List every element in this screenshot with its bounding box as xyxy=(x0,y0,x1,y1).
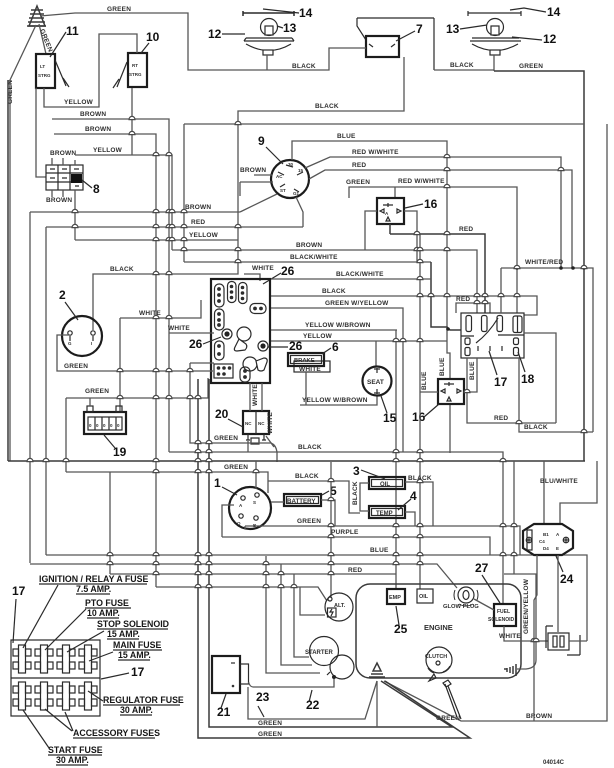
wire ground drop xyxy=(376,681,378,727)
wire black bracket oil/temp xyxy=(360,483,369,511)
svg-text:BLUE: BLUE xyxy=(370,547,389,554)
wire RED fuse jumper xyxy=(456,303,490,313)
svg-text:GREEN: GREEN xyxy=(107,6,131,13)
wire circle1 top pin xyxy=(255,461,257,489)
svg-text:AC: AC xyxy=(276,174,283,179)
svg-text:BROWN: BROWN xyxy=(240,167,266,174)
wire relay left pin xyxy=(365,211,377,250)
svg-text:BLUE: BLUE xyxy=(439,357,446,376)
svg-text:BLACK: BLACK xyxy=(450,62,474,69)
wire 23 xyxy=(248,681,377,719)
wire RT STRG second lead down xyxy=(131,88,133,155)
fuel solenoid 27 xyxy=(488,604,516,626)
svg-text:WHITE/RED: WHITE/RED xyxy=(525,259,563,266)
svg-text:10: 10 xyxy=(146,30,160,44)
wire relay right pin xyxy=(404,211,417,262)
fuse label PTO xyxy=(45,598,131,650)
wire GREEN from right headlight to right trunk xyxy=(494,71,584,461)
svg-text:BLACK/WHITE: BLACK/WHITE xyxy=(290,254,338,261)
wire 20 top pins to panel xyxy=(250,383,262,411)
svg-text:04014C: 04014C xyxy=(543,760,565,766)
fuse label REGULATOR FUSE xyxy=(88,691,184,715)
inline connector bottom right xyxy=(546,626,580,655)
headlight right (12/13/14) xyxy=(468,11,521,71)
wire bus y124 xyxy=(184,124,584,262)
svg-text:BLUE: BLUE xyxy=(337,133,356,140)
connector pill A xyxy=(215,284,225,307)
wire brake to yellow w/brown xyxy=(305,372,307,405)
svg-text:23: 23 xyxy=(256,690,270,704)
wire battery right down to GREEN y526 xyxy=(321,500,335,526)
wire WHITE y332 xyxy=(169,332,214,334)
wire RED y423 from regulator fuse xyxy=(467,358,556,423)
fuse block 17/18 top right xyxy=(461,313,524,358)
svg-text:26: 26 xyxy=(281,264,295,278)
dipstick wand bottom right xyxy=(443,680,461,719)
fuse r2c1 xyxy=(13,682,31,710)
svg-text:BLACK: BLACK xyxy=(110,266,134,273)
svg-text:YELLOW: YELLOW xyxy=(189,232,219,239)
svg-text:WHITE: WHITE xyxy=(252,384,259,406)
wire right edge vertical to bottom brown xyxy=(384,124,607,721)
headlight left (12/13/14) xyxy=(243,11,294,70)
svg-text:21: 21 xyxy=(217,705,231,719)
wire hops xyxy=(27,116,587,641)
svg-text:15: 15 xyxy=(298,168,304,173)
oil sender 3 xyxy=(369,477,405,489)
wire YELLOW W/BROWN y405 xyxy=(300,395,377,405)
svg-text:BLACK: BLACK xyxy=(295,473,319,480)
connector pill E xyxy=(215,309,225,330)
wire x514 vertical xyxy=(513,461,515,574)
starter feed wires xyxy=(266,556,320,673)
block inner dividers xyxy=(461,335,524,336)
alternator xyxy=(325,593,353,621)
svg-text:IGNITION / RELAY A FUSE: IGNITION / RELAY A FUSE xyxy=(39,574,148,584)
svg-text:9: 9 xyxy=(258,134,265,148)
wire BLUE relay16b left xyxy=(420,234,438,589)
svg-text:14: 14 xyxy=(299,6,313,20)
svg-text:13: 13 xyxy=(283,21,297,35)
svg-text:RED: RED xyxy=(456,296,470,303)
fuse label MAIN FUSE xyxy=(89,640,162,661)
svg-text:BROWN: BROWN xyxy=(526,713,552,720)
wire circle1 bottom pin xyxy=(244,526,246,529)
switch RT STRG (10) xyxy=(113,53,147,88)
svg-text:WHITE: WHITE xyxy=(499,633,521,640)
svg-text:BLU/WHITE: BLU/WHITE xyxy=(540,478,578,485)
svg-text:10 AMP.: 10 AMP. xyxy=(87,608,120,618)
svg-text:OIL: OIL xyxy=(419,594,429,600)
svg-text:GREEN: GREEN xyxy=(519,63,543,70)
svg-text:B1: B1 xyxy=(543,532,549,537)
node junction dots on white/red xyxy=(515,266,519,270)
svg-text:BLACK: BLACK xyxy=(292,63,316,70)
svg-text:GREEN: GREEN xyxy=(85,388,109,395)
ground (top-left chassis ground) xyxy=(27,6,46,26)
svg-text:RED W/WHITE: RED W/WHITE xyxy=(352,149,399,156)
wire main bus y461 xyxy=(8,80,585,461)
meter circle 2 xyxy=(62,316,102,356)
connector pill C xyxy=(239,283,248,304)
svg-text:19: 19 xyxy=(113,445,127,459)
wire GREEN left vertical from ground down left edge xyxy=(10,25,36,461)
wire GREEN y396 xyxy=(66,378,208,472)
svg-text:BROWN: BROWN xyxy=(185,204,211,211)
svg-text:LT: LT xyxy=(40,64,45,69)
svg-text:16: 16 xyxy=(412,410,426,424)
wire 20 bottom pins down xyxy=(248,436,274,452)
relay 21 xyxy=(212,656,249,693)
wire 24 bottom pins down xyxy=(534,555,558,721)
brake switch 6 xyxy=(288,353,330,372)
wire BROWN bus y212 xyxy=(30,212,240,563)
block inner marks xyxy=(476,318,502,351)
svg-text:BLACK: BLACK xyxy=(298,444,322,451)
key switch circle 1 xyxy=(229,487,271,529)
keyhole shape 2 xyxy=(243,357,267,371)
svg-text:30 AMP.: 30 AMP. xyxy=(120,705,153,715)
fuse r1c2 xyxy=(35,645,53,673)
fuse label ACCESSORY FUSES xyxy=(45,709,160,738)
svg-text:GREEN: GREEN xyxy=(224,464,248,471)
fuse r2c4 xyxy=(79,682,97,710)
svg-text:S: S xyxy=(253,500,256,505)
svg-text:C4: C4 xyxy=(539,539,545,544)
ground engine left xyxy=(369,663,385,677)
fuse label IGNITION xyxy=(23,574,148,648)
wire BLU/WHITE into 24 xyxy=(543,461,545,524)
starter motor xyxy=(305,637,354,680)
svg-text:7.5 AMP.: 7.5 AMP. xyxy=(76,584,111,594)
wire RED bus y227 xyxy=(46,227,303,555)
wire PURPLE y537 xyxy=(222,537,490,555)
ignition switch 9 xyxy=(271,160,309,198)
wire trunk x198 down to green xyxy=(198,379,470,738)
svg-text:WHITE: WHITE xyxy=(267,412,274,434)
engine block outline xyxy=(356,584,521,678)
svg-text:STOP SOLENOID: STOP SOLENOID xyxy=(97,619,169,629)
svg-text:ACCESSORY FUSES: ACCESSORY FUSES xyxy=(73,728,160,738)
svg-text:BLUE: BLUE xyxy=(421,371,428,390)
wire BROWN y119 xyxy=(52,119,169,452)
connector block bottom-left of panel xyxy=(214,364,233,378)
svg-text:1: 1 xyxy=(214,476,221,490)
svg-text:14: 14 xyxy=(547,5,561,19)
wire BLACK from 7 down and left xyxy=(93,57,404,330)
svg-text:ENGINE: ENGINE xyxy=(424,623,453,632)
hour meter 19 xyxy=(84,406,126,434)
svg-text:RED W/WHITE: RED W/WHITE xyxy=(398,178,445,185)
battery 5 xyxy=(284,494,321,506)
clutch xyxy=(425,647,452,681)
wire GREEN circle2 to panel connector xyxy=(57,335,213,371)
wire RED y234 xyxy=(390,234,485,313)
wire relay16b bottom pin xyxy=(449,405,451,453)
svg-text:GLOW PLUG: GLOW PLUG xyxy=(443,604,479,610)
wire oil right BLACK xyxy=(405,482,433,526)
svg-text:24: 24 xyxy=(560,572,574,586)
wire BLACK from headlight to 7 xyxy=(267,48,366,70)
bolt 26b xyxy=(258,341,268,351)
temp sender 4 xyxy=(369,506,405,518)
wire BLUE from ignition top xyxy=(292,141,450,378)
svg-text:SOLENOID: SOLENOID xyxy=(488,617,515,623)
svg-text:YELLOW: YELLOW xyxy=(303,333,333,340)
fuse label STOP SOLENOID xyxy=(67,619,169,652)
wire circle1 right pin to battery xyxy=(271,501,284,503)
regulator connector 24 xyxy=(523,524,573,555)
svg-text:7: 7 xyxy=(416,22,423,36)
svg-text:NC: NC xyxy=(245,421,252,426)
wire y563 xyxy=(30,564,457,588)
svg-text:15: 15 xyxy=(383,411,397,425)
svg-text:8: 8 xyxy=(93,182,100,196)
svg-text:17: 17 xyxy=(131,665,145,679)
svg-text:WHITE: WHITE xyxy=(252,265,274,272)
wire GREEN top from ground to headlight stem xyxy=(40,13,267,70)
svg-text:START FUSE: START FUSE xyxy=(48,745,103,755)
switch 20 xyxy=(243,411,269,440)
oil pressure switch box xyxy=(417,589,433,603)
svg-text:20: 20 xyxy=(215,407,229,421)
wire y587 xyxy=(156,587,327,615)
fuse r1c3 xyxy=(57,645,75,673)
svg-text:BRAKE: BRAKE xyxy=(294,358,315,364)
wire stubs into ignition left xyxy=(240,175,273,196)
wire BLACK from 7 funnel to right headlight xyxy=(434,69,494,71)
svg-text:D4: D4 xyxy=(543,546,549,551)
wire 21 to starter (22) xyxy=(249,679,335,687)
connector pill G bottom xyxy=(240,367,250,382)
wire BROWN y134 xyxy=(54,134,156,587)
wire BLACK/WHITE bus y262 xyxy=(184,261,431,263)
wire YELLOW from LT STRG bottom to RT STRG top xyxy=(44,34,137,107)
wire RED y575 xyxy=(110,472,396,574)
svg-text:BLUE: BLUE xyxy=(469,361,476,380)
wire bus y472 GREEN xyxy=(66,472,268,493)
svg-text:YELLOW W/BROWN: YELLOW W/BROWN xyxy=(302,397,368,404)
svg-text:YELLOW: YELLOW xyxy=(93,147,123,154)
ground engine right sideways xyxy=(504,664,516,676)
svg-text:2: 2 xyxy=(59,288,66,302)
svg-text:GREEN: GREEN xyxy=(258,720,282,727)
svg-text:MAIN FUSE: MAIN FUSE xyxy=(113,640,162,650)
wire BROWN diag from ignition to bus xyxy=(240,194,277,212)
svg-text:STARTER: STARTER xyxy=(305,650,334,656)
svg-text:BROWN: BROWN xyxy=(80,111,106,118)
svg-text:ST: ST xyxy=(280,188,286,193)
svg-text:RT: RT xyxy=(132,63,138,68)
svg-text:18: 18 xyxy=(521,372,535,386)
wire BLACK/WHITE y279 xyxy=(270,278,431,280)
lamp unit 7 xyxy=(357,18,434,70)
wire GREEN/YELLOW from black y453 down to engine ground xyxy=(504,574,536,669)
fuse label START FUSE xyxy=(23,710,103,765)
svg-text:17: 17 xyxy=(494,375,508,389)
relay 16 (A relay) xyxy=(377,198,404,224)
wire RED from ignition xyxy=(309,170,572,268)
svg-text:OIL: OIL xyxy=(380,482,390,488)
svg-text:BLACK: BLACK xyxy=(322,288,346,295)
svg-text:PURPLE: PURPLE xyxy=(331,529,359,536)
svg-text:12: 12 xyxy=(208,27,222,41)
svg-text:13: 13 xyxy=(446,22,460,36)
svg-text:GREEN/YELLOW: GREEN/YELLOW xyxy=(523,578,530,634)
wire circle1 left pin loop xyxy=(222,505,234,537)
svg-text:RED: RED xyxy=(352,162,366,169)
bolt 26a xyxy=(222,329,232,339)
svg-text:BROWN: BROWN xyxy=(46,197,72,204)
fuse c xyxy=(497,316,503,332)
svg-text:17: 17 xyxy=(12,584,26,598)
panel 26 box xyxy=(211,279,270,383)
svg-text:NC: NC xyxy=(258,421,265,426)
svg-text:SEAT: SEAT xyxy=(367,379,384,386)
wire diag ignition bottom xyxy=(296,197,303,227)
svg-text:GREEN: GREEN xyxy=(214,435,238,442)
svg-text:26: 26 xyxy=(289,339,303,353)
wire BLUE y555 xyxy=(46,555,587,641)
keyhole shape 1 xyxy=(234,327,251,351)
svg-text:RED: RED xyxy=(494,415,508,422)
svg-text:12: 12 xyxy=(543,32,557,46)
svg-text:G: G xyxy=(68,341,72,346)
wire stubs bottom of connector 8 xyxy=(52,190,75,240)
svg-text:4: 4 xyxy=(410,489,417,503)
connector pill D horizontal xyxy=(250,304,266,314)
wire glow to fuel sol diag xyxy=(474,599,494,610)
svg-text:6: 6 xyxy=(332,340,339,354)
fuse panel box 17 xyxy=(11,640,100,716)
wire YELLOW W/BROWN y330 xyxy=(270,330,397,588)
svg-text:11: 11 xyxy=(66,24,79,38)
wire stubs top of connector 8 xyxy=(52,158,75,165)
seat switch 15 xyxy=(363,367,392,396)
svg-text:I: I xyxy=(91,341,92,346)
svg-text:BROWN: BROWN xyxy=(296,242,322,249)
svg-text:EMP: EMP xyxy=(389,595,401,601)
wire WHITE from fuel solenoid xyxy=(504,626,548,641)
svg-text:WHITE: WHITE xyxy=(299,366,321,373)
svg-text:GREEN: GREEN xyxy=(297,518,321,525)
wire connector to right vertical xyxy=(569,640,587,642)
svg-text:3: 3 xyxy=(353,464,360,478)
temp gauge sender 25 box xyxy=(387,589,405,604)
wire WHITE/RED y267 xyxy=(501,268,593,432)
wire YELLOW bus y240 xyxy=(75,239,238,241)
wire YELLOW y155 xyxy=(75,155,172,250)
svg-text:22: 22 xyxy=(306,698,320,712)
svg-text:RED: RED xyxy=(348,567,362,574)
svg-text:E: E xyxy=(556,546,559,551)
wire BROWN bus y250 xyxy=(172,250,477,313)
svg-text:GREEN: GREEN xyxy=(258,731,282,738)
svg-text:25: 25 xyxy=(394,622,408,636)
switch LT STRG (11) xyxy=(36,54,69,88)
fuse r1c4 xyxy=(79,645,97,673)
wire relay bottom pin RED xyxy=(389,224,391,234)
svg-text:G1: G1 xyxy=(293,191,300,196)
svg-text:CLUTCH: CLUTCH xyxy=(425,654,447,660)
svg-text:YELLOW: YELLOW xyxy=(64,99,94,106)
wire BLACK battery top y480 xyxy=(268,481,360,513)
svg-text:WHITE: WHITE xyxy=(168,325,190,332)
svg-text:15 AMP.: 15 AMP. xyxy=(107,629,140,639)
svg-text:STRG: STRG xyxy=(38,73,51,78)
svg-text:27: 27 xyxy=(475,561,489,575)
relay 16b xyxy=(438,379,464,404)
fuse r1c1 xyxy=(13,645,31,673)
wire 24 pin A loop xyxy=(560,461,597,524)
wire GREEN y526 xyxy=(245,526,520,555)
svg-text:26: 26 xyxy=(189,337,203,351)
fuse a xyxy=(466,316,472,332)
svg-text:BATTERY: BATTERY xyxy=(287,498,316,505)
wire WHITE y318 xyxy=(120,300,201,413)
svg-text:GREEN: GREEN xyxy=(64,363,88,370)
connector block 8 xyxy=(46,165,83,190)
connector pill F xyxy=(215,341,225,360)
fuse b xyxy=(482,316,488,332)
wire temp right xyxy=(405,512,415,526)
svg-text:16: 16 xyxy=(424,197,438,211)
svg-text:BROWN: BROWN xyxy=(85,126,111,133)
svg-text:REGULATOR FUSE: REGULATOR FUSE xyxy=(103,695,184,705)
svg-text:TEMP: TEMP xyxy=(376,511,393,517)
glow plug xyxy=(454,587,478,606)
svg-text:BROWN: BROWN xyxy=(50,150,76,157)
svg-text:RED: RED xyxy=(459,226,473,233)
wire GREEN / RED W/WHITE y187 xyxy=(349,187,517,313)
wire YELLOW y340 xyxy=(270,341,447,367)
wire GREEN W/YELLOW y308 xyxy=(270,308,403,452)
wire ALT feed xyxy=(330,462,332,597)
wire RED W/WHITE from ignition xyxy=(305,157,561,268)
svg-text:YELLOW W/BROWN: YELLOW W/BROWN xyxy=(305,322,371,329)
fuse f lower-right xyxy=(514,338,519,345)
wire block right to RED down xyxy=(524,333,556,423)
wire BLUE relay16b right pin xyxy=(464,358,477,392)
wire 19 left pin up xyxy=(89,398,91,406)
fuse r2c2 xyxy=(35,682,53,710)
svg-text:O: O xyxy=(237,521,241,526)
svg-text:GREEN W/YELLOW: GREEN W/YELLOW xyxy=(325,300,389,307)
wire trunk x209 down to green xyxy=(209,379,452,727)
svg-text:BLACK: BLACK xyxy=(315,103,339,110)
svg-text:BLACK: BLACK xyxy=(524,424,548,431)
svg-text:RED: RED xyxy=(191,219,205,226)
wire LT STRG second lead to connector 8 xyxy=(36,88,46,177)
svg-text:GREEN: GREEN xyxy=(346,179,370,186)
svg-text:PTO FUSE: PTO FUSE xyxy=(85,598,129,608)
fuse e lower-left xyxy=(465,338,470,345)
svg-text:BLACK: BLACK xyxy=(352,481,359,505)
wire BLACK y296 xyxy=(270,296,537,315)
wire WHITE into panel top xyxy=(244,274,260,281)
svg-text:STRG: STRG xyxy=(129,72,142,77)
svg-text:BLACK/WHITE: BLACK/WHITE xyxy=(336,271,384,278)
svg-text:FUEL: FUEL xyxy=(497,609,510,615)
wire GREEN y447 / BLACK y453 xyxy=(190,363,277,462)
wire BLACK y432 xyxy=(519,358,593,432)
fuse d xyxy=(513,316,522,333)
svg-text:30 AMP.: 30 AMP. xyxy=(56,755,89,765)
svg-text:30: 30 xyxy=(288,162,294,167)
connector pill B xyxy=(228,282,237,303)
svg-text:15 AMP.: 15 AMP. xyxy=(118,650,151,660)
wire GREEN diagonal ground to LT STRG top xyxy=(39,24,46,54)
